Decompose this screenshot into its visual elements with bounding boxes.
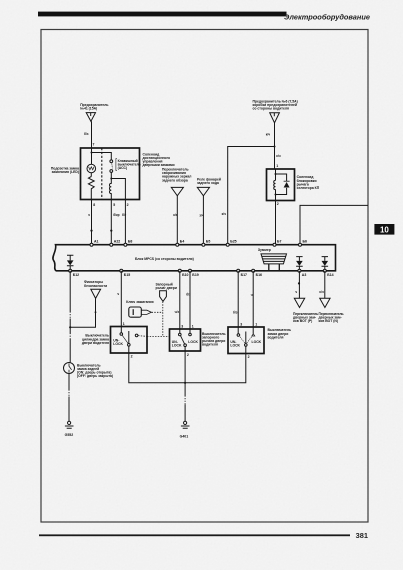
svg-text:2: 2	[127, 203, 129, 207]
label solenoid door locks	[143, 152, 175, 167]
svg-text:(АСС): (АСС)	[118, 166, 128, 170]
svg-text:ч: ч	[88, 213, 90, 217]
switch S2 lever	[128, 331, 130, 344]
svg-text:водителя: водителя	[202, 343, 218, 347]
page frame	[41, 30, 368, 523]
pin 1	[276, 164, 278, 168]
svg-text:(OFF: дверь закрыта): (OFF: дверь закрыта)	[77, 374, 113, 378]
svg-text:Б12: Б12	[73, 273, 79, 277]
svg-text:А22: А22	[114, 240, 120, 244]
svg-text:Б6: Б6	[303, 240, 308, 244]
svg-text:1: 1	[123, 322, 125, 326]
label mirror switch	[162, 168, 191, 183]
svg-text:Ключ зажигания: Ключ зажигания	[126, 300, 153, 304]
buzzer	[261, 254, 287, 264]
wire common to pin2	[184, 347, 186, 352]
switch S4 lever	[245, 332, 247, 344]
svg-text:Б17: Б17	[241, 273, 247, 277]
svg-text:А3: А3	[302, 273, 307, 277]
svg-text:Б14: Б14	[327, 273, 333, 277]
wire color ch	[295, 290, 297, 294]
svg-text:LOCK: LOCK	[172, 344, 182, 348]
svg-text:381: 381	[356, 531, 368, 540]
switch S3 contact left	[179, 329, 181, 333]
mechanical dash knob down	[162, 302, 164, 337]
svg-text:ч/з: ч/з	[175, 310, 180, 314]
wire pin5 to bus A22	[110, 200, 112, 245]
svg-text:5: 5	[113, 203, 115, 207]
dashed mechanical line	[101, 148, 103, 200]
connector arrow door lock P	[294, 298, 304, 307]
wire color k/ch	[222, 212, 226, 216]
label door lock switch P	[293, 312, 318, 323]
svg-text:2: 2	[277, 202, 279, 206]
svg-text:G552: G552	[65, 433, 74, 437]
rear door lock switch S1	[64, 363, 75, 374]
wire color k/ch	[276, 154, 280, 158]
solenoid shift-lock box U2	[267, 169, 295, 201]
wire color b/z	[84, 132, 89, 136]
label lamp LED	[51, 166, 79, 174]
switch S3 lever	[181, 336, 185, 344]
svg-text:зажигания (LED): зажигания (LED)	[52, 170, 79, 174]
wire common to pin2	[128, 346, 130, 353]
svg-text:Б4: Б4	[180, 240, 185, 244]
wire branch to B25	[228, 147, 275, 245]
svg-text:3: 3	[181, 324, 183, 328]
switch S3 common contact	[184, 344, 187, 347]
splice dot	[110, 230, 112, 232]
svg-text:б/г: б/г	[122, 213, 127, 217]
wire color ch	[251, 293, 253, 297]
label UN-LOCK	[113, 339, 123, 347]
switch S4 common contact	[245, 344, 248, 347]
wire fuse to solenoid	[274, 147, 276, 170]
wire lower contact to node	[110, 172, 112, 178]
label reverse relay	[197, 177, 221, 185]
pin labels bottom	[73, 273, 334, 277]
svg-text:10: 10	[380, 226, 389, 235]
svg-text:со стороны водителя: со стороны водителя	[253, 107, 290, 111]
switch S4 contact left	[237, 327, 239, 334]
ground bus wire	[129, 351, 246, 383]
wire color b/z	[186, 293, 191, 297]
svg-text:2: 2	[248, 355, 250, 359]
connector arrow door lock N	[320, 298, 330, 307]
splice dot	[90, 230, 92, 232]
knob switch box S3	[170, 329, 201, 351]
wire color ch	[117, 292, 119, 296]
label safety knobs	[84, 280, 107, 288]
pin 5	[113, 203, 115, 207]
MPCS control unit box	[53, 245, 336, 271]
wire color ch/z	[175, 310, 180, 314]
wire to box bottom	[275, 195, 277, 201]
buzzer label	[258, 248, 271, 252]
svg-text:к/ч: к/ч	[319, 290, 323, 294]
wire B19 down	[189, 271, 191, 329]
wire fuse F41 to box	[91, 121, 93, 148]
svg-text:селектора КП: селектора КП	[297, 186, 320, 190]
svg-text:Б16: Б16	[256, 273, 262, 277]
fuse F6 label	[253, 100, 298, 111]
diode D3	[322, 257, 328, 261]
switch contact upper	[110, 160, 113, 163]
wire B16 down	[252, 271, 254, 327]
bracket	[116, 159, 117, 171]
fuse F41	[86, 113, 95, 122]
lock knob	[160, 291, 167, 302]
svg-text:к/ч: к/ч	[222, 212, 226, 216]
pin 7	[93, 143, 95, 147]
pin 2	[127, 203, 129, 207]
wire pin2 to bus B8	[124, 200, 126, 245]
wire color b/kr	[113, 213, 119, 217]
connector arrow mirror switch	[171, 187, 183, 195]
resistor R1	[88, 177, 94, 200]
svg-text:двери водителя: двери водителя	[82, 341, 109, 345]
pin labels top	[94, 240, 307, 244]
svg-text:Б8: Б8	[128, 240, 133, 244]
wire color b/g	[122, 213, 127, 217]
svg-text:Б25: Б25	[230, 240, 236, 244]
wire color k/z	[173, 213, 177, 217]
svg-text:б/кр: б/кр	[113, 213, 119, 217]
wire branch to safety knobs	[70, 299, 95, 328]
label ignition key	[126, 300, 153, 304]
wire to ground G401	[184, 383, 186, 421]
mechanical dash key to knob	[152, 311, 163, 313]
wire B17 down	[237, 271, 239, 327]
label key switch ACC	[118, 159, 141, 170]
wire common to pin2	[245, 346, 247, 353]
label cylinder switch	[82, 334, 109, 345]
svg-text:Б19: Б19	[192, 273, 198, 277]
svg-text:б/з: б/з	[233, 310, 238, 314]
wire color ch	[88, 213, 90, 217]
svg-text:к/ч: к/ч	[276, 154, 280, 158]
label LOCK	[188, 340, 198, 344]
pin 2	[248, 355, 250, 359]
switch S4 contact right	[252, 327, 254, 334]
wire color k/ch	[319, 290, 323, 294]
node junction	[110, 178, 112, 180]
label door lock switch N	[319, 312, 344, 323]
label rear door lock switch	[77, 363, 113, 378]
svg-text:з/ч: з/ч	[199, 214, 203, 218]
svg-text:LOCK: LOCK	[113, 342, 123, 346]
svg-text:заднего хода: заднего хода	[197, 181, 219, 185]
svg-text:Зуммер: Зуммер	[258, 248, 271, 252]
node junction top	[91, 152, 93, 154]
wire to bus B7	[275, 201, 277, 245]
footer rule	[39, 534, 350, 536]
svg-text:7: 7	[93, 143, 95, 147]
switch contact lower	[110, 170, 113, 173]
svg-text:Б7: Б7	[277, 240, 282, 244]
wire to ground G552	[68, 374, 70, 422]
svg-text:ков ВОТ (N): ков ВОТ (N)	[319, 319, 338, 323]
door cylinder switch box S2	[111, 327, 148, 354]
svg-text:А1: А1	[94, 240, 99, 244]
pin 3	[181, 324, 183, 328]
wire off page to B6	[300, 205, 368, 244]
wire to pin2	[111, 179, 125, 200]
pin 1	[255, 322, 257, 326]
label UN-LOCK	[172, 340, 182, 348]
svg-text:к/з: к/з	[173, 213, 177, 217]
label LOCK	[252, 340, 262, 344]
svg-text:G401: G401	[180, 434, 189, 438]
svg-text:заднего обзора: заднего обзора	[162, 178, 188, 182]
svg-text:Б10: Б10	[182, 273, 188, 277]
wire pin8 to bus A1	[91, 200, 93, 245]
svg-text:безопасности: безопасности	[84, 284, 107, 288]
wire to bus B4	[176, 196, 178, 245]
switch S3 contact right	[189, 329, 191, 333]
wire B14 down	[324, 271, 326, 298]
svg-text:б/з: б/з	[84, 132, 89, 136]
diode D2	[296, 257, 302, 261]
solenoid unit box U1	[81, 148, 140, 200]
switch S2 common contact	[128, 344, 131, 347]
svg-text:рычаг двери: рычаг двери	[156, 286, 177, 290]
wire to key switch	[92, 153, 112, 160]
connector pins bottom edge	[69, 269, 327, 272]
switch S2 contact left	[120, 327, 122, 333]
wire lamp to resistor	[90, 173, 92, 177]
wire B12 down	[69, 271, 71, 363]
diode D1	[67, 255, 73, 260]
svg-text:Электрооборудование: Электрооборудование	[284, 12, 370, 21]
fuse F41 label	[80, 103, 108, 111]
node junction	[274, 146, 276, 148]
diode D4	[284, 180, 290, 182]
wire color b/z	[233, 310, 238, 314]
node junction	[275, 173, 277, 175]
label G401	[180, 434, 189, 438]
diode branch wire	[276, 174, 287, 195]
svg-text:1: 1	[276, 164, 278, 168]
wire color k/ch	[266, 132, 270, 136]
connector arrow reverse relay	[197, 187, 209, 195]
driver door lock switch box S4	[228, 327, 264, 354]
svg-text:LOCK: LOCK	[188, 340, 198, 344]
connector arrow safety knobs	[91, 289, 101, 298]
lamp LED	[87, 164, 96, 173]
pin 2	[187, 353, 189, 357]
svg-text:ч: ч	[117, 292, 119, 296]
svg-text:б/з: б/з	[186, 293, 191, 297]
ground G401	[184, 421, 187, 424]
svg-text:3: 3	[240, 322, 242, 326]
splice dot	[95, 311, 97, 313]
svg-text:LOCK: LOCK	[230, 344, 240, 348]
switch lever	[111, 164, 114, 169]
svg-text:2: 2	[187, 353, 189, 357]
svg-text:к/ч: к/ч	[266, 132, 270, 136]
svg-text:ч: ч	[251, 293, 253, 297]
ground G552	[68, 421, 71, 424]
wire A3 down	[298, 271, 300, 298]
wire to bus B5	[202, 196, 204, 245]
svg-text:LOCK: LOCK	[252, 340, 262, 344]
node junction	[184, 382, 186, 384]
svg-text:8: 8	[93, 203, 95, 207]
svg-text:ков ВОТ (Р): ков ВОТ (Р)	[293, 319, 312, 323]
coil L1	[110, 179, 112, 200]
wire B10 down	[179, 271, 181, 329]
ignition key	[129, 307, 142, 317]
wire B12 dotted breaks	[69, 312, 71, 340]
svg-text:водителя: водителя	[268, 335, 284, 339]
svg-text:2: 2	[131, 355, 133, 359]
pin 1	[192, 324, 194, 328]
pin 8	[93, 203, 95, 207]
label UN-LOCK	[230, 340, 240, 348]
label shift lock solenoid	[297, 175, 320, 190]
connector pins top edge	[90, 243, 302, 246]
header bar	[38, 12, 287, 17]
svg-text:Б5: Б5	[206, 240, 211, 244]
wire fuse F6 down	[274, 123, 276, 147]
pin 2	[131, 355, 133, 359]
label MPCS	[135, 257, 194, 261]
wire color z/ch	[199, 214, 203, 218]
svg-text:1: 1	[255, 322, 257, 326]
label door lock switch	[268, 328, 292, 339]
wire to lamp	[91, 148, 93, 164]
svg-text:№41 (15А): №41 (15А)	[80, 106, 97, 110]
svg-text:Блок MPCS (со стороны водителя: Блок MPCS (со стороны водителя)	[135, 257, 194, 261]
pin 3	[240, 322, 242, 326]
node junction	[275, 194, 277, 196]
node junction B12 branch	[69, 326, 71, 328]
switch S2 contact right	[135, 334, 138, 337]
label lock knob	[156, 282, 177, 290]
wire in box	[275, 169, 277, 180]
pin 1	[123, 322, 125, 326]
chapter tab 10	[374, 224, 394, 235]
svg-text:ч: ч	[295, 290, 297, 294]
label G552	[65, 433, 74, 437]
pin 2	[277, 202, 279, 206]
splice dot	[298, 282, 300, 284]
wire B15 to cylinder switch	[120, 271, 122, 327]
svg-text:1: 1	[192, 324, 194, 328]
svg-text:Б15: Б15	[124, 273, 130, 277]
mechanical dashes to box2	[138, 336, 169, 337]
label knob switch	[202, 332, 226, 347]
coil L2	[274, 180, 276, 194]
fuse F6	[270, 113, 280, 123]
